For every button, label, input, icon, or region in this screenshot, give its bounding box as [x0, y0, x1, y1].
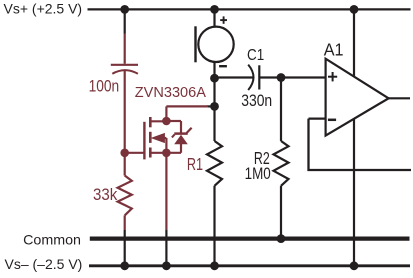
svg-text:A1: A1: [324, 40, 344, 60]
svg-text:Common: Common: [23, 231, 81, 247]
svg-text:1M0: 1M0: [245, 165, 271, 184]
svg-text:Vs– (–2.5 V): Vs– (–2.5 V): [5, 256, 83, 272]
svg-text:33k: 33k: [93, 187, 117, 205]
svg-text:100n: 100n: [89, 77, 120, 95]
svg-text:330n: 330n: [241, 92, 272, 110]
svg-text:Vs+ (+2.5 V): Vs+ (+2.5 V): [4, 1, 83, 17]
svg-text:R1: R1: [187, 155, 203, 175]
svg-text:C1: C1: [247, 47, 264, 64]
svg-text:ZVN3306A: ZVN3306A: [135, 85, 206, 101]
